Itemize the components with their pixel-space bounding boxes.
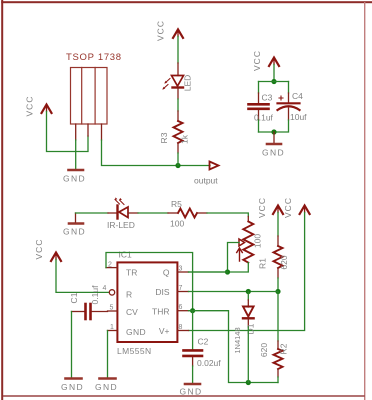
svg-text:THR: THR — [152, 307, 169, 317]
svg-text:100: 100 — [253, 234, 263, 248]
svg-text:0.02uf: 0.02uf — [197, 358, 221, 368]
wire cap bottom to ground — [273, 132, 275, 143]
svg-text:IR-LED: IR-LED — [107, 220, 135, 230]
wire R3 to output node — [177, 153, 179, 166]
wire C2 to ground — [192, 366, 194, 383]
wire VCC to R pin bubble — [56, 260, 109, 293]
IR-LED pin cathode — [108, 212, 117, 214]
wire VCC down to V+ pin — [189, 213, 305, 331]
node D1 anode — [246, 289, 251, 294]
wire D1 cathode to bottom rail — [247, 327, 249, 383]
LED pin anode — [177, 63, 179, 76]
svg-text:C3: C3 — [262, 93, 273, 103]
svg-text:VCC: VCC — [25, 96, 35, 117]
wire VCC to LED anode — [177, 37, 179, 64]
wire pin7 DIS to R1 node — [189, 291, 279, 293]
wire ground stub to IR-LED — [75, 213, 77, 222]
wire C1 to ground — [71, 312, 73, 378]
IR-LED pin anode — [128, 212, 138, 214]
svg-text:V+: V+ — [159, 326, 170, 336]
svg-text:C4: C4 — [292, 91, 303, 101]
svg-text:D1: D1 — [246, 323, 256, 334]
wire R2 bottom to rail — [277, 377, 279, 383]
pin 4 R bubble — [103, 285, 115, 295]
potentiometer 100 — [237, 217, 263, 263]
wire VCC to cap top rail — [273, 65, 275, 82]
power symbol VCC (above LED) — [156, 20, 184, 41]
capacitor C4 10uf polarized — [278, 91, 308, 122]
svg-text:VCC: VCC — [34, 239, 44, 260]
svg-text:1N4148: 1N4148 — [233, 327, 242, 353]
svg-text:620: 620 — [279, 255, 289, 269]
ground GND (filter caps) — [262, 144, 285, 158]
power symbol VCC (top-left, TSOP supply) — [25, 96, 52, 117]
power symbol VCC (V+ supply) — [283, 197, 310, 218]
wire THR to bottom rail — [189, 311, 279, 383]
wire R1 node down to R2 — [277, 292, 279, 342]
node R1 bottom — [275, 289, 280, 294]
svg-text:output: output — [194, 176, 218, 186]
svg-text:3: 3 — [179, 266, 183, 273]
svg-text:TR: TR — [126, 268, 137, 278]
op-amp timer IC1 LM555N — [117, 250, 177, 357]
pin 8 V+ — [177, 324, 188, 331]
frame border right — [364, 2, 365, 400]
node bottom rail — [246, 380, 251, 385]
svg-text:6: 6 — [179, 304, 183, 311]
TSOP pin 1 — [75, 124, 77, 140]
pin 3 Q — [177, 266, 188, 273]
svg-text:R1: R1 — [258, 258, 268, 269]
wire TSOP pin1 to ground — [75, 140, 77, 169]
resistor R2 620 — [259, 341, 289, 377]
wire pin3 to pot node — [189, 271, 228, 273]
svg-text:DIS: DIS — [155, 287, 170, 297]
ground GND (under TSOP) — [63, 170, 86, 184]
pin 5 CV — [108, 305, 118, 312]
svg-text:100: 100 — [170, 219, 184, 229]
svg-text:620: 620 — [259, 343, 269, 357]
node pin3 junction — [225, 269, 230, 274]
ground GND (C2) — [180, 384, 203, 397]
capacitor C2 0.02uf — [184, 311, 222, 368]
wire C4 branch bottom — [259, 120, 289, 132]
TSOP pin 3 — [101, 124, 103, 140]
ground GND (IC) — [95, 379, 118, 393]
svg-text:GND: GND — [180, 387, 203, 397]
svg-text:LM555N: LM555N — [117, 346, 152, 356]
power symbol VCC (reset pin) — [34, 239, 61, 261]
wire R5 to potentiometer top — [207, 213, 248, 217]
svg-text:IC1: IC1 — [119, 250, 133, 260]
capacitor C1 0.1uf — [69, 285, 108, 319]
node THR junction — [190, 308, 195, 313]
svg-text:TSOP 1738: TSOP 1738 — [66, 52, 122, 63]
svg-text:R5: R5 — [171, 199, 182, 209]
svg-text:VCC: VCC — [283, 197, 293, 218]
resistor R5 100 — [168, 199, 207, 229]
diode IR-LED — [107, 197, 135, 230]
wire pot bottom — [189, 263, 249, 272]
svg-text:1: 1 — [110, 324, 114, 331]
LED pin cathode — [177, 88, 179, 99]
svg-text:VCC: VCC — [257, 197, 267, 218]
ground GND (C1) — [61, 379, 84, 393]
svg-text:8: 8 — [179, 324, 183, 331]
wire D1 anode lead — [247, 292, 249, 301]
wire LED to R3 — [177, 99, 179, 111]
wire VCC to TSOP pin2 — [47, 112, 89, 152]
svg-text:GND: GND — [95, 382, 118, 392]
wire ground to IR-LED cathode — [76, 212, 109, 214]
svg-text:R3: R3 — [159, 132, 169, 143]
wire TR loop over IC to THR node — [106, 253, 193, 311]
output pin arrow — [194, 162, 219, 186]
svg-text:4: 4 — [103, 285, 107, 292]
wire TSOP pin3 to output node — [102, 140, 211, 166]
svg-text:GND: GND — [262, 148, 285, 158]
IR receiver module TSOP 1738 — [66, 52, 122, 124]
pin 1 GND — [108, 324, 118, 331]
wire C3 branch top — [258, 82, 260, 94]
LED (indicator) — [163, 75, 193, 92]
pin 6 THR — [177, 304, 188, 311]
node cap top — [271, 79, 276, 84]
frame border left — [1, 0, 3, 400]
svg-text:1k: 1k — [180, 134, 190, 144]
wire pin1 to ground — [107, 331, 109, 378]
resistor R3 1k — [159, 111, 190, 153]
svg-text:GND: GND — [61, 382, 84, 392]
diode D1 1N4148 — [233, 300, 256, 354]
capacitor C3 0.1uf — [249, 93, 274, 123]
wire C4 branch top — [288, 82, 290, 94]
ground GND (IR-LED) — [63, 224, 86, 237]
wire cap loop top — [259, 81, 289, 83]
pin 2 TR — [106, 262, 117, 269]
wire R1 to DIS node — [277, 278, 279, 292]
frame border bottom — [3, 395, 365, 397]
svg-text:GND: GND — [63, 174, 86, 184]
svg-text:CV: CV — [126, 307, 138, 317]
power symbol VCC (R1 top) — [257, 197, 283, 218]
wire C3 branch bottom — [258, 120, 260, 132]
svg-text:GND: GND — [126, 327, 146, 337]
svg-text:LED: LED — [183, 75, 193, 92]
node cap bottom — [271, 129, 276, 134]
svg-text:5: 5 — [110, 305, 114, 312]
node output junction — [175, 163, 180, 168]
svg-text:2: 2 — [108, 262, 112, 269]
svg-text:Q: Q — [163, 268, 170, 278]
wire IR-LED to R5 — [138, 212, 168, 214]
svg-text:C1: C1 — [69, 292, 79, 303]
wire pot wiper to output node — [228, 243, 240, 273]
pin 7 DIS — [177, 285, 188, 292]
svg-text:0.1uf: 0.1uf — [254, 113, 274, 123]
svg-text:R: R — [126, 290, 132, 300]
svg-text:C2: C2 — [198, 337, 209, 347]
svg-text:GND: GND — [63, 227, 86, 237]
svg-text:R2: R2 — [279, 343, 289, 354]
svg-text:7: 7 — [179, 285, 183, 292]
TSOP pin 2 — [87, 124, 89, 136]
svg-text:0.1uf: 0.1uf — [90, 285, 100, 305]
wire VCC to R1 — [277, 213, 279, 237]
svg-text:VCC: VCC — [252, 50, 262, 71]
svg-text:10uf: 10uf — [290, 112, 307, 122]
power symbol VCC (top-right, filter caps) — [252, 50, 279, 71]
svg-text:VCC: VCC — [156, 20, 166, 41]
resistor R1 620 — [258, 236, 290, 278]
frame border top — [1, 1, 372, 3]
